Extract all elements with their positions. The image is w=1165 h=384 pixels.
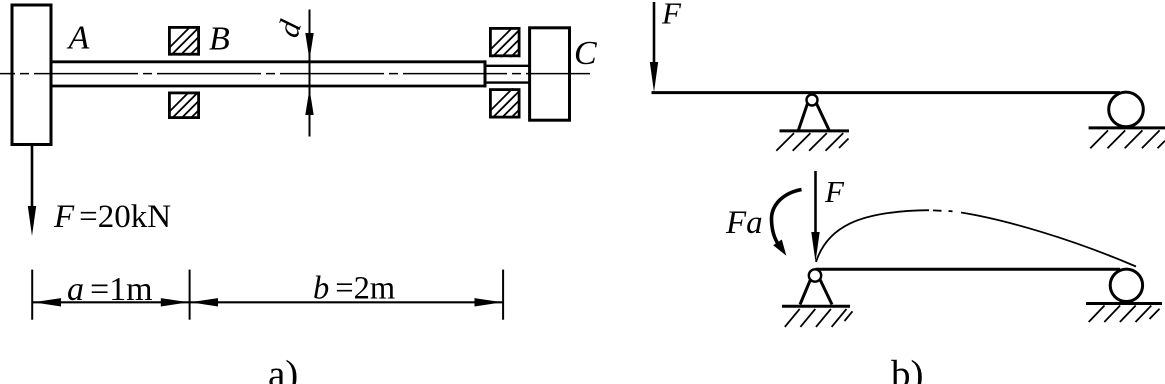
pulley A (left disc plate) (12, 5, 51, 145)
svg-text:a=1m: a=1m (67, 271, 153, 308)
dimension extension tick at C (502, 270, 504, 320)
pin support (upper beam) (776, 95, 849, 151)
svg-text:a): a) (268, 353, 298, 384)
journal (reduced shaft) top edge (485, 65, 530, 67)
label b =2m (313, 271, 395, 307)
bearing C lower block (478, 83, 555, 123)
caption b) (891, 353, 924, 384)
svg-text:F: F (661, 0, 682, 30)
beam (lower) (816, 268, 1121, 271)
shaft centre dash-dot line (0, 73, 590, 75)
label d (rotated) (270, 16, 308, 41)
label a =1m (67, 271, 153, 308)
label C (574, 35, 597, 72)
force F arrow (upper beam) (650, 2, 658, 92)
shaft step shoulder at right end (484, 60, 487, 87)
pin support (lower beam) (782, 269, 853, 327)
bearing C upper block (478, 22, 555, 62)
disc C (right disc) (530, 28, 570, 120)
label F =20kN (53, 199, 171, 235)
svg-text:B: B (209, 20, 230, 57)
label B (209, 20, 230, 57)
dimension line a (33, 298, 189, 306)
moment arc Fa (771, 190, 801, 256)
svg-text:F=20kN: F=20kN (53, 199, 171, 235)
label F (lower) (824, 174, 845, 209)
svg-text:Fa: Fa (725, 205, 763, 241)
force F arrow (lower beam) (811, 171, 819, 262)
dimension extension tick at A (31, 270, 33, 320)
dimension extension tick at B (189, 270, 191, 320)
shaft AB main body top edge (53, 60, 487, 63)
label F (upper) (661, 0, 682, 30)
bearing B upper block (157, 20, 234, 60)
force F arrow on pulley A (28, 145, 36, 236)
svg-text:b=2m: b=2m (313, 271, 395, 307)
caption a) (268, 353, 298, 384)
roller support (lower beam) (1086, 269, 1162, 322)
shaft AB main body bottom edge (53, 85, 487, 88)
beam (upper) (652, 91, 1121, 94)
label Fa (725, 205, 763, 241)
diameter dimension line d (305, 10, 313, 137)
label A (67, 19, 90, 56)
deflection curve (elastic line) (816, 210, 1136, 266)
roller support (upper beam) (1089, 92, 1165, 148)
svg-text:b): b) (891, 353, 924, 384)
journal (reduced shaft) bottom edge (485, 81, 530, 83)
svg-text:F: F (824, 174, 845, 209)
bearing B lower block (157, 84, 234, 124)
svg-text:C: C (574, 35, 597, 72)
dimension line b (190, 298, 503, 306)
svg-text:A: A (67, 19, 90, 56)
